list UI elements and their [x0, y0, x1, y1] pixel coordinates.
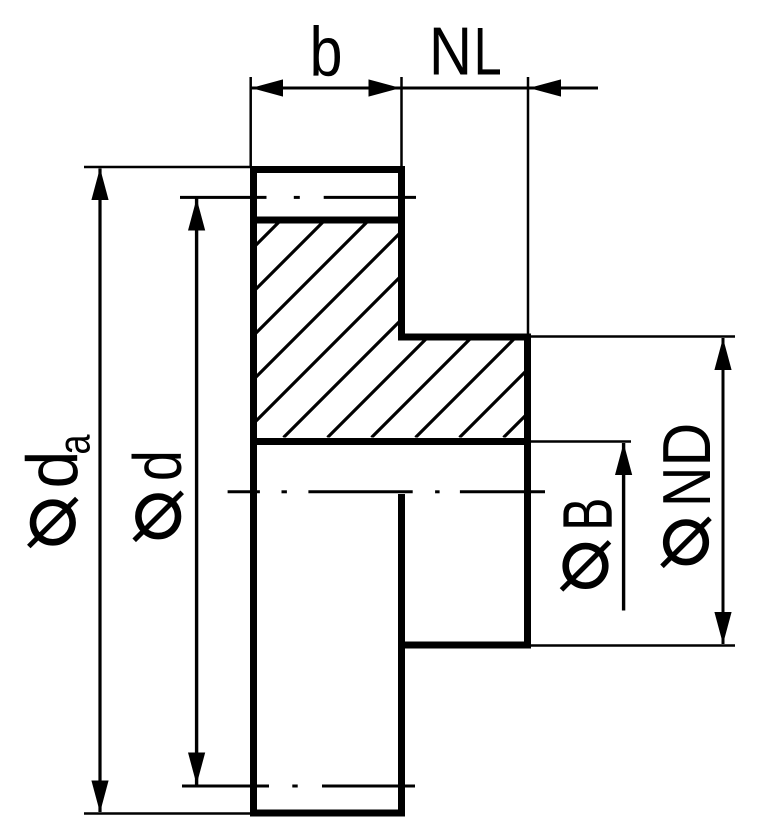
- label B letter B: [563, 500, 611, 526]
- extension line ND top: [531, 335, 735, 338]
- label d letter d: [132, 454, 182, 479]
- gear rim right face edge (lower, outside view): [398, 494, 405, 817]
- gear rim right face edge (upper, sectioned half): [398, 166, 405, 341]
- arrowhead B: [615, 443, 632, 475]
- label diameter ND: [662, 518, 710, 566]
- extension line b left: [249, 77, 252, 166]
- dimension line d: [195, 199, 198, 785]
- gear rim top edge (tip circle, width b): [250, 166, 405, 173]
- hub bottom edge (lower silhouette of hub): [398, 642, 531, 649]
- pitch line bottom (dash-dot): [182, 785, 415, 788]
- bore line (top of bore B): [250, 438, 531, 445]
- dimension line da: [98, 169, 101, 813]
- label NL letter N: [434, 28, 467, 75]
- pitch line top (dash-dot): [180, 196, 416, 199]
- gear axis centre line (dash-dot): [228, 490, 545, 493]
- arrowhead da top: [91, 168, 108, 200]
- label ND letter D: [663, 426, 710, 462]
- hub right face edge: [524, 334, 531, 649]
- extension line da top: [84, 166, 252, 169]
- label diameter B: [562, 542, 610, 590]
- label diameter d: [134, 492, 182, 540]
- extension line B (bore): [531, 440, 631, 443]
- label ND letter N: [663, 471, 710, 502]
- dimension line ND: [722, 338, 725, 644]
- arrowhead b left: [251, 79, 283, 96]
- label NL letter L: [478, 28, 500, 74]
- extension line d top: [180, 196, 250, 199]
- extension line da bottom: [84, 812, 250, 815]
- label diameter da: [29, 499, 77, 547]
- dimension line b / NL: [251, 87, 598, 90]
- arrowhead d top: [188, 199, 205, 231]
- gear left face edge: [250, 166, 257, 817]
- label da letter d: [25, 455, 78, 486]
- extension line d bottom: [182, 785, 250, 788]
- label da subscript a: [65, 434, 89, 453]
- gear rim bottom edge (tip circle, outside view): [250, 810, 405, 817]
- arrowhead NL right (outside): [529, 79, 561, 96]
- arrowhead d bottom: [188, 753, 205, 785]
- extension line ND bottom: [531, 644, 735, 647]
- label b: [313, 25, 340, 76]
- arrowhead ND top: [714, 338, 731, 370]
- tooth root line: [250, 217, 405, 224]
- arrowhead ND bottom: [714, 612, 731, 644]
- extension line NL right: [527, 77, 530, 334]
- arrowhead b right: [369, 79, 401, 96]
- extension line b right: [400, 77, 403, 166]
- dimension line B: [622, 443, 625, 611]
- arrowhead da bottom: [91, 781, 108, 813]
- hub top edge (step to hub diameter ND): [398, 334, 531, 341]
- section hatching of gear body: [64, 200, 742, 438]
